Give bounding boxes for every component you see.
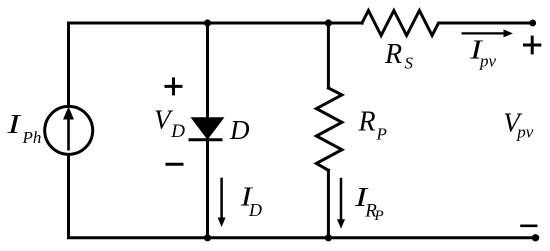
svg-text:P: P [376, 125, 387, 144]
svg-text:R: R [384, 39, 402, 70]
svg-text:R: R [358, 107, 376, 138]
svg-text:S: S [405, 53, 414, 72]
svg-text:pv: pv [516, 123, 534, 142]
svg-text:pv: pv [479, 51, 497, 70]
svg-text:D: D [248, 200, 262, 220]
svg-text:D: D [170, 121, 185, 142]
svg-text:I: I [6, 109, 23, 139]
svg-text:P: P [374, 208, 384, 224]
svg-text:D: D [229, 115, 250, 145]
svg-text:Ph: Ph [22, 128, 42, 147]
